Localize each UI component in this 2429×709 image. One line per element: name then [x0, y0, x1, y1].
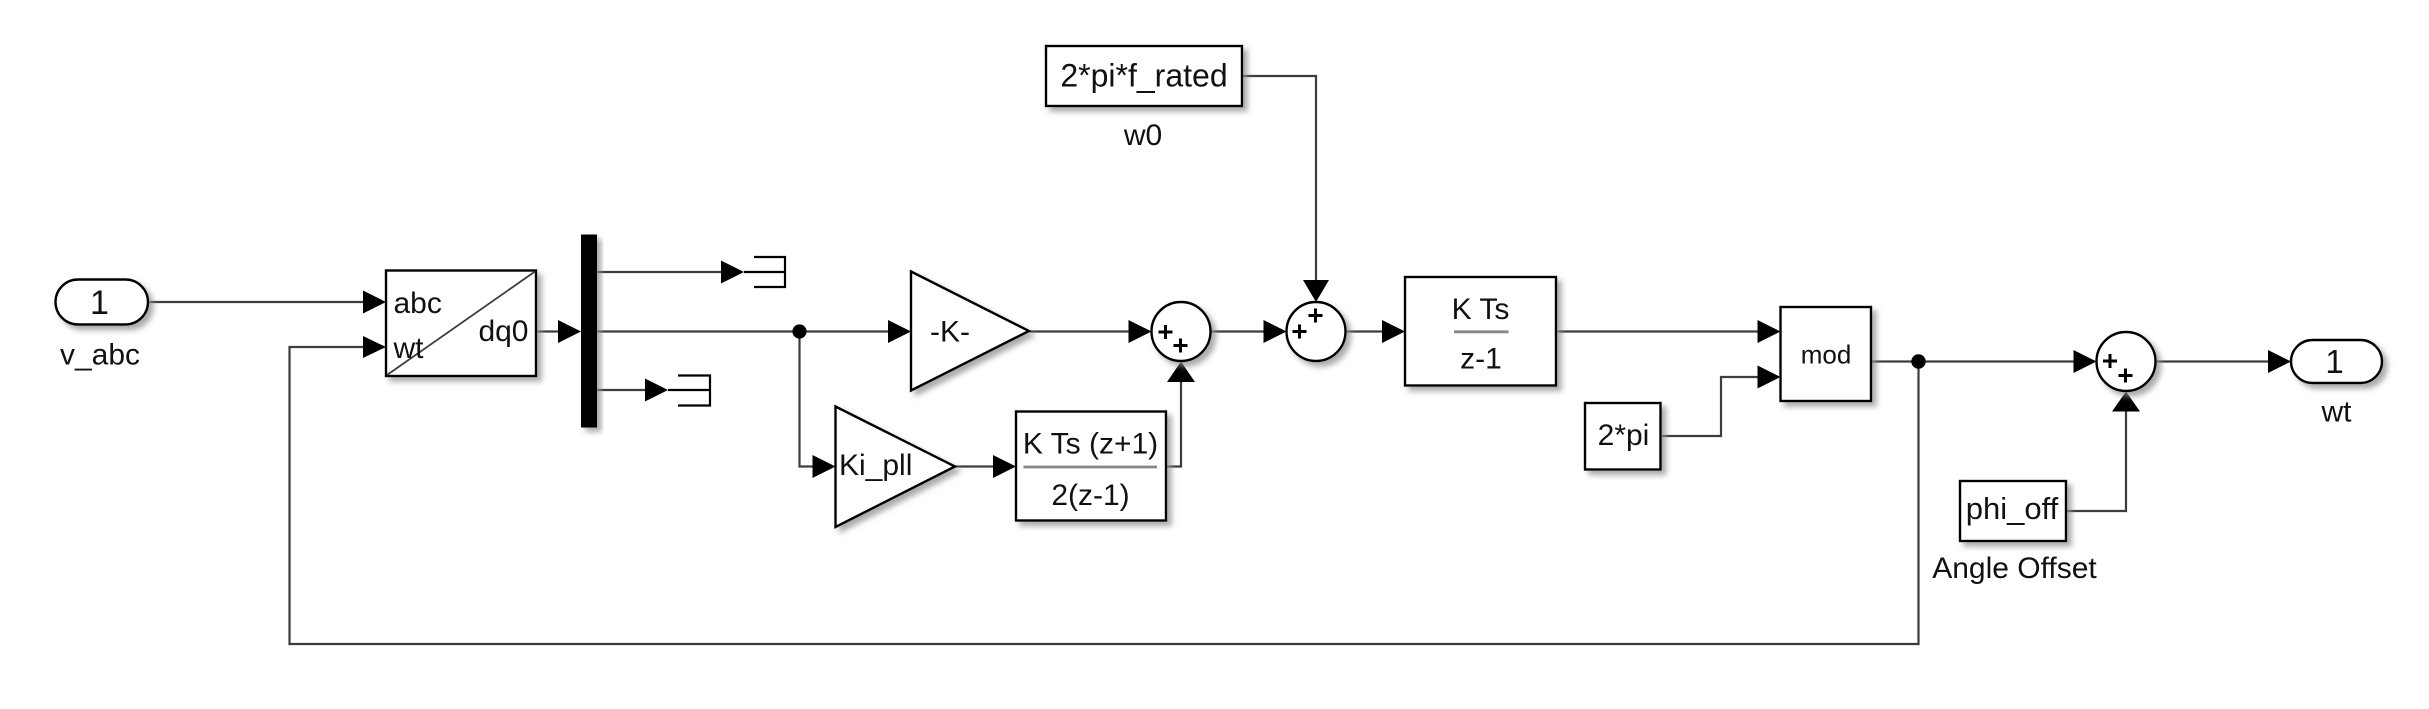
svg-text:w0: w0 — [1123, 119, 1162, 152]
svg-text:Angle Offset: Angle Offset — [1932, 552, 2097, 585]
svg-text:abc: abc — [394, 287, 442, 320]
svg-text:2(z-1): 2(z-1) — [1051, 479, 1129, 512]
svg-text:2*pi: 2*pi — [1598, 419, 1650, 452]
svg-text:K Ts (z+1): K Ts (z+1) — [1023, 428, 1158, 461]
svg-text:-K-: -K- — [930, 316, 970, 349]
svg-text:1: 1 — [2325, 343, 2343, 380]
svg-text:Ki_pll: Ki_pll — [839, 449, 912, 482]
svg-text:mod: mod — [1801, 340, 1852, 370]
svg-text:z-1: z-1 — [1460, 343, 1502, 376]
svg-text:K Ts: K Ts — [1452, 293, 1510, 326]
svg-text:1: 1 — [90, 284, 109, 322]
svg-text:dq0: dq0 — [478, 315, 528, 348]
svg-text:v_abc: v_abc — [60, 339, 140, 372]
svg-text:2*pi*f_rated: 2*pi*f_rated — [1060, 58, 1227, 94]
svg-text:wt: wt — [393, 332, 425, 365]
svg-text:phi_off: phi_off — [1966, 491, 2059, 526]
svg-text:wt: wt — [2321, 396, 2353, 429]
